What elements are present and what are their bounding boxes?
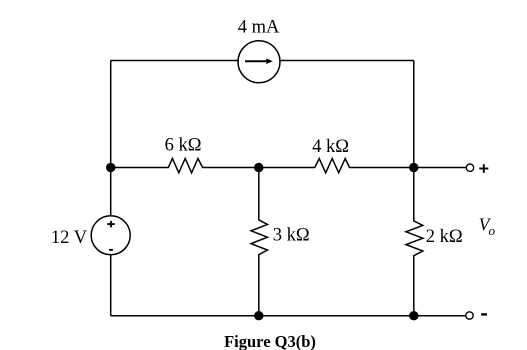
svg-text:3 kΩ: 3 kΩ xyxy=(273,226,310,246)
svg-text:2 kΩ: 2 kΩ xyxy=(426,227,463,247)
svg-text:12 V: 12 V xyxy=(51,228,88,248)
svg-text:Figure Q3(b): Figure Q3(b) xyxy=(224,332,316,350)
svg-text:4 kΩ: 4 kΩ xyxy=(312,137,349,157)
svg-text:o: o xyxy=(489,223,496,238)
svg-text:6 kΩ: 6 kΩ xyxy=(165,135,202,155)
svg-text:4 mA: 4 mA xyxy=(238,18,280,38)
